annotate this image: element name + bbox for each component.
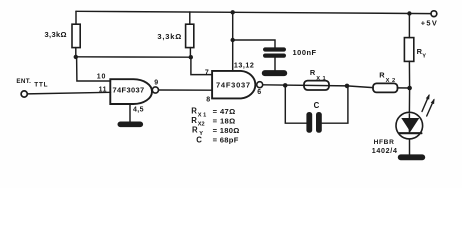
svg-text:= 68pF: = 68pF [213,136,239,145]
wire U1 pins 4,5 to ground [129,104,131,122]
svg-text:= 180Ω: = 180Ω [213,126,240,135]
wire R1 node down to gate U1 pin 10 [77,57,111,81]
capacitor C1 100nF plates [263,47,286,57]
wire feedback rail between resistor bottoms [76,56,191,58]
wire C1 to ground [274,58,276,71]
wire branch to capacitor C1 100nF [233,40,275,48]
LED D1 anode triangle [402,119,418,131]
junction node RX1 right / C branch [345,84,350,89]
resistor RY [404,14,413,89]
svg-text:R: R [191,116,197,125]
svg-text:= 18Ω: = 18Ω [213,116,236,125]
value list line C = 68pF [196,135,238,144]
svg-text:Y: Y [422,53,426,59]
inverter bubble U1 output [152,87,158,93]
wire +5V top rail [76,11,431,13]
wire LED through pin [408,114,410,132]
wire U2 output to RX1 [263,85,347,86]
wire input to gate U1 pin 11 [27,92,110,94]
svg-text:HFBR: HFBR [374,139,395,146]
svg-text:= 47Ω: = 47Ω [213,107,236,116]
ground under C1 [262,70,287,76]
svg-text:R: R [379,70,385,79]
op-amp U2 NAND gate 74F3037 body [212,71,255,99]
junction node rail / 13,12 branch [231,10,235,14]
junction node +5V / RY [407,11,411,15]
ground under LED [398,154,425,160]
svg-text:10: 10 [97,73,106,80]
LED D1 HFBR circle [396,112,423,139]
svg-text:R: R [192,126,198,135]
resistor RX1 body [304,81,329,90]
inverter bubble U2 output [257,82,263,88]
wire node down to LED D1 [408,88,410,112]
svg-text:X2: X2 [198,122,205,128]
junction node RY / RX2 / LED [407,86,412,91]
resistor RX2 body [373,83,398,92]
svg-text:X 1: X 1 [316,76,326,82]
svg-text:X 1: X 1 [198,112,206,118]
LED D1 cathode bar [399,132,421,134]
wire RX1 to RX2 [347,86,373,88]
op-amp U1 NAND gate 74F3037 body [110,79,152,104]
svg-text:3,3kΩ: 3,3kΩ [157,32,182,41]
svg-text:+5V: +5V [421,18,438,27]
wire U1 output to U2 pin 8 [159,89,213,91]
LED emission arrow 2 [427,99,435,117]
svg-text:1402/4: 1402/4 [372,147,398,155]
value list line RX2 = 18 Ohm [191,116,235,127]
svg-text:TTL: TTL [34,82,48,89]
svg-text:8: 8 [206,97,210,104]
wire R2 node down to gate U2 pin 7 [191,57,212,74]
svg-text:C: C [196,135,202,144]
svg-text:R: R [310,68,316,77]
svg-text:X 2: X 2 [386,78,396,84]
wire +5V rail down to U2 pins 13,12 [232,12,234,71]
svg-text:R: R [191,107,197,116]
wire C loop right branch [322,86,348,123]
junction node at R1 bottom [74,55,78,59]
svg-text:4,5: 4,5 [133,107,144,114]
capacitor C plates [306,112,321,133]
resistor R2 3.3k (right pull-up) [186,12,194,57]
svg-text:6: 6 [257,89,261,96]
junction node at R2 bottom [189,55,193,59]
svg-text:74F3037: 74F3037 [113,86,145,95]
svg-text:3,3kΩ: 3,3kΩ [45,30,67,39]
junction node U2 output / C branch [283,83,288,88]
svg-text:11: 11 [99,87,107,94]
wire C loop left branch [285,85,306,123]
wire RX2 to LED node [398,87,410,89]
svg-text:100nF: 100nF [293,48,317,57]
terminal +5V [431,11,437,17]
ground under U1 [118,122,144,128]
svg-text:74F3037: 74F3037 [216,81,251,90]
terminal ENT. TTL input [21,91,27,97]
svg-text:7: 7 [205,69,209,76]
svg-text:ENT.: ENT. [16,78,31,85]
value list line RX1 = 47 Ohm [191,107,235,119]
LED emission arrow 1 [422,94,430,112]
svg-text:C: C [314,101,320,110]
junction node decoupling branch [231,38,235,42]
svg-text:9: 9 [154,79,158,86]
svg-text:13,12: 13,12 [234,61,255,69]
resistor R1 3.3k (left pull-up) [72,11,80,57]
value list line RY = 180 Ohm [192,126,240,137]
wire LED cathode to ground [409,139,411,155]
